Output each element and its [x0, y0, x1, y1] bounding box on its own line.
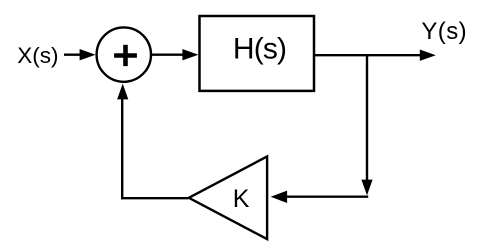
- wire branch down from output node: [361, 55, 372, 195]
- gain block K (triangle amplifier): [189, 157, 267, 240]
- wire input arrow into summing junction: [64, 49, 96, 60]
- summing junction S1: [97, 27, 151, 81]
- svg-text:Y(s): Y(s): [421, 18, 467, 45]
- plus sign of summing junction: [114, 45, 137, 66]
- wire output of H(s) with arrow: [315, 50, 436, 61]
- block H1 transfer function: [200, 16, 315, 91]
- wire feedback vertical up into summing junction: [117, 84, 128, 200]
- svg-text:X(s): X(s): [17, 43, 58, 68]
- wire feedback horizontal into K block: [271, 191, 369, 203]
- wire from K output left: [121, 197, 189, 199]
- wire summing junction to H(s) block: [152, 49, 199, 60]
- svg-text:K: K: [233, 185, 250, 213]
- svg-text:H(s): H(s): [233, 32, 286, 65]
